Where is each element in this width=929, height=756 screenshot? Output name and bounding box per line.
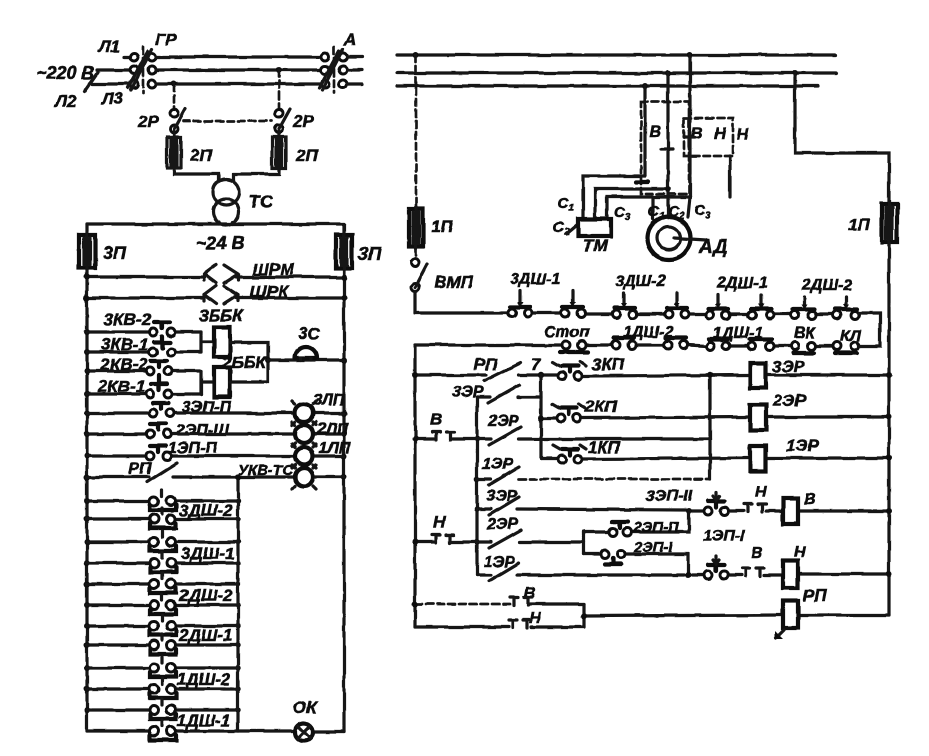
wire rung 1DSh-1 lower <box>87 729 238 732</box>
contact 2EP-I <box>601 550 609 558</box>
contact 1ER NC slash <box>489 467 519 485</box>
contact break marks in drops <box>661 137 695 149</box>
contact 3DSh-2 upper <box>150 497 159 506</box>
wire tap left (dashed) <box>173 84 176 109</box>
svg-text:ШРМ: ШРМ <box>252 260 295 279</box>
wire step to TM 3 <box>607 197 690 219</box>
wire phase 1: GR to A <box>156 55 320 58</box>
svg-text:2Р: 2Р <box>137 112 159 131</box>
node bell <box>265 357 271 363</box>
svg-text:ТМ: ТМ <box>583 236 609 255</box>
svg-text:3ДШ-2: 3ДШ-2 <box>179 501 233 520</box>
wire motor drop C1 (bus3) <box>643 86 646 176</box>
wire rung 2KV-2 <box>87 369 201 372</box>
wire bus phase 3 <box>397 84 818 87</box>
transformer TC secondary <box>213 199 239 225</box>
wire tap right (dashed) <box>278 70 281 109</box>
svg-text:2ДШ-1: 2ДШ-1 <box>716 275 767 292</box>
coil N <box>783 561 798 588</box>
svg-text:В: В <box>804 491 816 508</box>
svg-text:ВМП: ВМП <box>434 273 473 292</box>
switch GR poles <box>130 53 138 61</box>
svg-text:~220 В: ~220 В <box>36 63 95 83</box>
svg-text:ОК: ОК <box>293 698 318 717</box>
svg-text:3ЭП-II: 3ЭП-II <box>646 488 693 505</box>
svg-text:3П: 3П <box>103 243 127 263</box>
svg-text:2ЭР: 2ЭР <box>772 391 807 410</box>
mechanical link 2KV pair <box>157 375 161 389</box>
svg-text:ГР: ГР <box>155 30 177 49</box>
contact 3DSh-1 lower <box>150 559 159 568</box>
wire right drop from bus2 <box>795 73 889 202</box>
wire motor drop C3 (bus1) <box>688 55 691 197</box>
contact 2DSh-2 upper <box>150 580 159 589</box>
svg-text:2ДШ-1: 2ДШ-1 <box>178 626 233 645</box>
contact 2DSh-1 upper <box>150 622 159 631</box>
wire phase 3: GR to A <box>156 82 320 85</box>
wire 2R to fuse left <box>172 131 175 137</box>
coil RP tail <box>776 630 784 638</box>
node on phase 2 at right tap <box>276 67 282 73</box>
coil 2ER <box>750 405 766 430</box>
wire fuse left to transformer <box>174 168 219 180</box>
contact 3EP-P <box>149 409 157 417</box>
svg-text:2ЭП-Ш: 2ЭП-Ш <box>175 422 229 439</box>
wire rung 3DSh-2 upper <box>87 499 238 502</box>
contact N NO left <box>432 535 454 543</box>
wire left rail of block <box>413 345 416 627</box>
contact pair 1DSh-2 a <box>612 341 620 349</box>
wire phase 1 left stub <box>124 55 130 58</box>
leader line from ~220V label <box>84 72 98 92</box>
svg-text:1ЭП-I: 1ЭП-I <box>703 528 745 545</box>
node rail dots row1 <box>412 372 418 378</box>
svg-text:1ЭР: 1ЭР <box>482 456 513 473</box>
bell 3C <box>295 347 317 358</box>
wire right rail down <box>887 244 890 375</box>
contact 2EP-II <box>609 528 617 536</box>
svg-text:2П: 2П <box>295 146 318 165</box>
contact pair 2DSh-1 a <box>706 311 714 319</box>
wire rung 2DSh-2 lower <box>87 603 238 606</box>
contact pair 2DSh-2 a <box>791 311 799 319</box>
lamp 2LP <box>295 425 313 443</box>
button 3EP-II <box>704 507 712 515</box>
contact 2DSh-1 lower <box>150 641 159 650</box>
contact 2KV-2 <box>146 367 154 375</box>
wire rung 1LP <box>87 454 344 457</box>
caps row2 <box>560 338 857 353</box>
contact 1EP <box>146 452 154 460</box>
svg-text:1КП: 1КП <box>588 438 621 457</box>
wire 2R to fuse right <box>277 131 280 137</box>
wire rung 3KV-1 <box>87 350 201 353</box>
contact N NO <box>744 504 766 512</box>
wire row dashed 479 <box>519 478 710 481</box>
mechanical link 3KV pair <box>160 336 164 347</box>
node bus1 motor drop <box>687 52 693 58</box>
svg-text:3ЛП: 3ЛП <box>313 392 345 409</box>
wire step to TM 1 <box>583 176 645 219</box>
svg-text:1ДШ-2: 1ДШ-2 <box>623 324 673 341</box>
wire bus phase 2 <box>397 71 836 74</box>
contact 3DSh-1 upper <box>150 538 159 547</box>
svg-text:ШРК: ШРК <box>250 282 290 301</box>
fuse 3P right <box>336 235 352 268</box>
contact pair VK <box>791 342 799 350</box>
button 1KP <box>558 455 566 463</box>
svg-text:1П: 1П <box>848 215 870 234</box>
contact RP NC slash <box>484 363 520 381</box>
svg-text:3ЭР: 3ЭР <box>772 357 806 376</box>
phase right stubs after A <box>347 55 362 58</box>
svg-text:1П: 1П <box>431 217 453 236</box>
svg-text:2ЭП-П: 2ЭП-П <box>632 519 680 536</box>
caps row1 <box>510 307 857 309</box>
leader C2 to TM <box>566 224 578 234</box>
svg-text:Стоп: Стоп <box>544 324 589 341</box>
wire rung ShRK <box>87 296 344 299</box>
lamp OK <box>295 723 313 741</box>
dashed link between 2R contacts <box>183 120 272 123</box>
wire row 2ER <box>541 417 889 418</box>
contact pair 2DSh-2 b <box>833 311 841 319</box>
svg-text:АД: АД <box>698 237 727 258</box>
contact N NO bottom <box>509 620 531 628</box>
svg-text:3КВ-2: 3КВ-2 <box>104 310 152 329</box>
wire rung ShRM <box>87 275 344 278</box>
svg-text:Л2: Л2 <box>53 92 77 111</box>
wire rung 3DSh-1 lower <box>87 561 238 564</box>
svg-text:3С: 3С <box>298 324 320 343</box>
wire fuse to VMP <box>415 248 418 258</box>
wire rung 1DSh-2 lower <box>87 687 238 690</box>
wire fuse right to transformer <box>233 168 279 180</box>
wire rung 2KV-1 <box>87 392 201 395</box>
junction dots left rail <box>84 274 90 713</box>
coil 2BBK <box>214 367 230 397</box>
node bus2 motor drop <box>665 70 671 76</box>
wire rung 3DSh-1 upper <box>87 540 238 543</box>
svg-text:РП: РП <box>474 355 498 374</box>
svg-text:Н: Н <box>794 544 806 561</box>
wire rung 3DSh-2 lower <box>87 517 238 520</box>
wire rung 2DSh-1 upper <box>87 624 238 627</box>
contact 3DSh-2 lower <box>150 515 159 524</box>
wire motor drop C2 (bus2) <box>666 73 669 217</box>
contact pair 3DSh-1 a <box>508 309 516 317</box>
svg-text:В: В <box>430 410 442 429</box>
svg-text:1ЭР: 1ЭР <box>786 436 820 455</box>
svg-text:3ББК: 3ББК <box>199 306 245 325</box>
contactor box N (dashed) <box>684 118 733 156</box>
svg-text:2ЭР: 2ЭР <box>486 516 518 533</box>
wire row N-coil <box>477 574 889 575</box>
fuse 2P left <box>167 137 181 168</box>
contact 3KV-1 <box>149 348 157 356</box>
wire drop left to fuse 1P (dashed) <box>415 55 418 207</box>
box KL right end <box>859 313 880 346</box>
node 7 dot <box>538 372 544 378</box>
svg-text:~24 В: ~24 В <box>196 233 245 253</box>
svg-text:2ЭР: 2ЭР <box>487 413 519 430</box>
leader to AD label <box>674 238 706 240</box>
wire row 1ER <box>541 458 889 459</box>
svg-text:УКВ-ТС: УКВ-ТС <box>238 462 294 479</box>
contactor box V (dashed) <box>641 102 689 194</box>
wire bus phase 1 <box>397 53 836 56</box>
lamp 3LP <box>295 404 313 422</box>
svg-text:ВК: ВК <box>794 325 817 342</box>
wire mid rail <box>236 477 239 731</box>
wire row V-coil <box>477 509 889 511</box>
coil 3ER <box>750 363 766 388</box>
svg-text:1ДШ-2: 1ДШ-2 <box>177 670 231 689</box>
svg-text:Н: Н <box>714 126 726 143</box>
wire rung 3KV-2 <box>87 330 201 333</box>
switch A blade <box>319 49 343 90</box>
contact 3KV-2 <box>149 328 157 336</box>
contact 1DSh-1 upper <box>150 706 159 715</box>
wire rung 1DSh-2 upper <box>87 666 238 669</box>
connector ShRM <box>204 265 238 283</box>
wire top rail 24V <box>87 222 344 225</box>
wire rung 3LP <box>87 411 344 414</box>
contact pair 1DSh-1 b <box>748 342 756 350</box>
contact 1ER NC slash 2 <box>489 563 519 581</box>
svg-text:3ДШ-2: 3ДШ-2 <box>615 273 665 290</box>
contact 2ER NC slash 2 <box>489 530 521 548</box>
wire row 3ER <box>415 375 889 376</box>
contact pair 1DSh-2 b <box>664 341 672 349</box>
svg-text:3П: 3П <box>358 244 382 264</box>
svg-text:В: В <box>649 124 661 141</box>
svg-text:А: А <box>343 30 356 49</box>
svg-text:2КП: 2КП <box>584 397 618 416</box>
svg-text:Н: Н <box>433 513 446 532</box>
loop 2EP: lower branch <box>584 554 688 575</box>
wire VMP down to chain row1 <box>413 291 416 313</box>
wire row V <box>415 437 710 440</box>
wire rung RP <box>87 475 344 478</box>
transformer TC primary <box>213 179 239 205</box>
node bus1 left drop <box>413 52 419 58</box>
svg-text:7: 7 <box>531 355 542 374</box>
coil V <box>783 498 798 524</box>
wire phase 2 left stub <box>97 68 130 71</box>
fuse 3P left <box>79 235 95 268</box>
svg-text:КЛ: КЛ <box>840 328 862 345</box>
contact 2DSh-2 lower <box>150 601 159 610</box>
wire row N bottom <box>415 625 584 628</box>
node on phase 3 at left tap <box>171 81 177 87</box>
junction dots right rail <box>341 274 347 480</box>
svg-text:2П: 2П <box>189 146 212 165</box>
contact pair 3DSh-2 b <box>665 310 673 318</box>
switch GR blade <box>128 49 152 90</box>
contact 2KV-1 <box>146 390 154 398</box>
svg-text:2ЛП: 2ЛП <box>316 421 349 438</box>
wire rung 1DSh-1 upper <box>87 708 238 711</box>
svg-text:В: В <box>751 545 763 562</box>
wire bottom to lamp OK <box>238 731 344 732</box>
svg-text:3КП: 3КП <box>592 355 625 374</box>
wire bracket 3KV to 3BBK <box>201 332 214 352</box>
wire vertical x584 bottom <box>582 604 585 627</box>
svg-text:1ЛП: 1ЛП <box>319 440 351 457</box>
contact 2ER NC slash <box>489 427 521 445</box>
wire row RP coil <box>584 615 889 616</box>
node bus3 motor drop <box>642 83 648 89</box>
svg-text:1ДШ-1: 1ДШ-1 <box>177 711 231 730</box>
fuse 2P right <box>272 137 286 168</box>
wire 2BBK to node <box>230 360 268 382</box>
wire motor feed 1 from box V <box>651 197 654 219</box>
contact pair Stop <box>562 341 570 349</box>
electromagnet TM <box>578 219 611 236</box>
contact RP normally-closed <box>147 463 177 482</box>
contact pair 2DSh-1 b <box>748 311 756 319</box>
wire vertical from node 7 <box>539 375 542 459</box>
wire vertical x477 <box>475 397 478 575</box>
wire right rail of block <box>887 375 890 615</box>
arrows row1 <box>520 291 846 305</box>
wire rung 2LP <box>87 432 344 435</box>
lamp 1LP <box>295 447 313 465</box>
connector ShRK <box>204 286 238 304</box>
wire 3BBK to node <box>230 342 268 360</box>
wire bracket 2KV to 2BBK <box>201 371 214 394</box>
fuse 1P right <box>882 204 897 242</box>
fuse 1P left <box>409 209 423 246</box>
contact pair KL <box>833 342 841 350</box>
contact 2EP <box>146 430 154 438</box>
contact 2R left <box>170 109 178 117</box>
svg-text:Л1: Л1 <box>97 37 120 56</box>
contact 1DSh-2 upper <box>150 664 159 673</box>
wire transformer to top rail <box>219 222 233 224</box>
wire phase 2: GR to A <box>156 68 320 71</box>
contact 3ER NC slash 2 <box>489 497 519 515</box>
wire box N right pole down <box>728 156 731 197</box>
svg-text:1ДШ-1: 1ДШ-1 <box>713 325 763 342</box>
junction dots mid rail <box>235 498 240 712</box>
contact pair 3DSh-2 a <box>612 310 620 318</box>
svg-text:Л3: Л3 <box>100 89 124 108</box>
loop 2EP: upper branch <box>584 511 689 532</box>
svg-text:3ДШ-1: 3ДШ-1 <box>181 544 235 563</box>
button 1EP-I <box>704 571 712 579</box>
contact 1DSh-2 lower <box>150 685 159 694</box>
wire step to TM 2 <box>595 189 668 219</box>
coil 3BBK <box>214 327 230 357</box>
lamp UKV-TS <box>295 468 313 486</box>
wire stub 3ER NC <box>477 395 541 398</box>
contact VMP <box>411 258 419 266</box>
wire vertical x584 upper <box>582 531 585 554</box>
svg-text:2ДШ-2: 2ДШ-2 <box>801 277 852 294</box>
switch A poles <box>321 53 329 61</box>
button 3KP <box>558 372 566 380</box>
wire phase 3 left stub <box>92 82 130 85</box>
svg-text:Н: Н <box>755 484 767 501</box>
wire left rail <box>85 224 88 731</box>
svg-text:РП: РП <box>128 459 152 478</box>
wire chain row 2 <box>415 345 833 346</box>
contact pair 3DSh-1 b <box>561 309 569 317</box>
coil RP <box>783 601 798 628</box>
motor AD inner <box>658 227 681 250</box>
wire rung 2DSh-1 lower <box>87 643 238 646</box>
contact 2R right <box>275 109 283 117</box>
wire row V bottom <box>415 603 510 606</box>
wire chain row 1 <box>415 313 833 314</box>
wire vertical x708 <box>708 375 711 479</box>
svg-text:2ДШ-2: 2ДШ-2 <box>178 586 233 605</box>
svg-text:В: В <box>691 125 703 142</box>
wire rung 2DSh-2 upper <box>87 582 238 585</box>
svg-text:3ДШ-1: 3ДШ-1 <box>510 271 560 288</box>
button 2KP <box>557 414 565 422</box>
svg-text:В: В <box>524 585 536 602</box>
contact 3ER NC slash <box>488 385 520 403</box>
wire row N <box>415 540 584 543</box>
contact pair 1DSh-1 a <box>706 342 714 350</box>
svg-text:2Р: 2Р <box>292 112 314 131</box>
svg-text:Н: Н <box>737 126 749 143</box>
wire node to bell to rail <box>268 358 344 361</box>
contact V NO <box>432 432 454 440</box>
coil 1ER <box>750 446 766 471</box>
wire motor feed 3 <box>688 197 690 217</box>
motor AD outer <box>648 217 691 260</box>
contact V NO bottom <box>510 597 532 605</box>
node bus2 right drop <box>792 70 798 76</box>
contact V NO right <box>742 568 764 576</box>
svg-text:РП: РП <box>803 586 827 605</box>
svg-text:ТС: ТС <box>249 192 274 212</box>
wire right rail <box>342 224 345 732</box>
contact 1DSh-1 lower <box>150 727 159 736</box>
